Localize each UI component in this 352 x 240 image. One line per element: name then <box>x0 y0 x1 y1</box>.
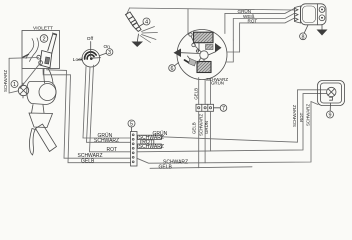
headlamp leg <box>29 129 35 156</box>
wire coil feed horizontal <box>9 57 38 60</box>
magneto M6 outer <box>177 30 227 80</box>
wire magneto down schwarz <box>204 79 206 104</box>
label ROT boxed <box>141 140 154 146</box>
kill switch S8 body <box>295 4 327 25</box>
svg-text:GRÜN: GRÜN <box>204 121 209 134</box>
svg-text:GELB: GELB <box>81 158 95 164</box>
label 3 <box>99 53 106 56</box>
wire rot top <box>240 18 295 52</box>
svg-text:4: 4 <box>145 20 148 26</box>
wire magneto down gruen <box>210 78 212 104</box>
arrow stub <box>23 54 29 57</box>
wire magneto down gelb <box>198 78 200 105</box>
label 9 <box>327 111 334 118</box>
svg-text:2: 2 <box>42 37 45 43</box>
svg-text:Lock: Lock <box>73 57 84 63</box>
svg-text:SCHWARZ: SCHWARZ <box>306 104 311 126</box>
wire bus schwarz right <box>137 102 318 164</box>
pilot bulb E1 <box>18 83 28 98</box>
wire block down gelb <box>198 111 200 167</box>
svg-text:GELB: GELB <box>191 122 196 134</box>
svg-text:SCHWARZ: SCHWARZ <box>198 114 203 136</box>
label 8 <box>300 33 307 40</box>
svg-text:Off: Off <box>87 36 94 42</box>
label 4 <box>139 18 150 27</box>
coil cables squiggle <box>26 39 34 59</box>
wire bus rot right <box>137 94 327 152</box>
magneto left arrow <box>174 49 182 58</box>
wire block down gruen <box>210 111 212 151</box>
wire SCHWARZ vertical left <box>9 58 18 93</box>
label 5 <box>128 120 135 127</box>
svg-text:8: 8 <box>302 34 305 40</box>
label 2 <box>40 35 48 43</box>
ignition coil box B2 <box>22 31 60 69</box>
svg-text:5: 5 <box>130 122 133 128</box>
headlamp housing <box>27 82 56 105</box>
svg-text:VIOLETT: VIOLETT <box>33 26 53 32</box>
terminal strip X5 <box>131 132 138 167</box>
wire bus green right <box>137 90 327 142</box>
svg-text:SCHWARZ: SCHWARZ <box>292 105 297 127</box>
label 7 <box>220 105 227 112</box>
wire bus gelb <box>150 167 252 169</box>
wire kill tap to magneto <box>187 9 189 35</box>
label 6 <box>169 65 176 72</box>
wire magneto right stub2 <box>227 40 234 62</box>
wire block down schwarz <box>204 111 206 163</box>
coil terminal b <box>39 61 43 65</box>
headlamp bracket <box>29 113 53 128</box>
magneto right arrow <box>215 43 222 53</box>
coil terminal a <box>37 55 41 59</box>
wire coil to lamp b <box>49 69 54 83</box>
svg-text:3: 3 <box>108 50 111 56</box>
svg-text:ROT: ROT <box>299 112 304 122</box>
svg-text:SCHWARZ: SCHWARZ <box>94 138 119 144</box>
label SCHWARZ boxed <box>138 135 164 141</box>
svg-text:ROT: ROT <box>107 147 118 153</box>
svg-text:6: 6 <box>171 66 174 72</box>
junction block X7 <box>196 104 214 111</box>
wire box down 1 <box>47 70 131 158</box>
wire coil to lamp a <box>43 69 46 84</box>
ignition switch S3 <box>78 42 100 68</box>
svg-text:GELB: GELB <box>193 88 198 100</box>
wire weib top <box>233 13 294 40</box>
ground at spark plug <box>132 34 144 47</box>
wire ROT left <box>90 65 131 152</box>
svg-text:ROT: ROT <box>248 19 258 24</box>
spark plug U4 body <box>126 12 142 31</box>
spark plug spark rays <box>140 27 158 43</box>
wire bulb to coil diagonal <box>20 63 40 88</box>
label SCHWARZ boxed 2 <box>138 144 164 150</box>
svg-text:9: 9 <box>329 113 332 119</box>
svg-text:GELB: GELB <box>159 164 173 170</box>
wire switch down 2 <box>87 67 131 143</box>
wire HT/kill top run <box>130 8 295 10</box>
wire box corner to bulb <box>21 69 23 86</box>
wire gruen top <box>225 8 295 33</box>
svg-text:1: 1 <box>13 82 16 88</box>
tail lamp E9 <box>318 81 345 106</box>
svg-text:7: 7 <box>222 106 225 112</box>
wire plug drop <box>127 8 130 15</box>
svg-text:SCHWARZ: SCHWARZ <box>3 70 8 92</box>
magneto ignition coil <box>197 62 211 73</box>
magneto cam <box>200 51 208 59</box>
magneto lighting coil <box>194 32 214 43</box>
wire magneto right stub <box>228 51 240 53</box>
ignition coil body <box>40 33 57 68</box>
magneto points detail <box>181 33 215 66</box>
svg-text:SCHWARZ: SCHWARZ <box>139 144 164 150</box>
svg-text:GRÜN: GRÜN <box>211 80 224 85</box>
wire switch down 1 <box>83 67 131 139</box>
headlamp stalk <box>36 124 57 152</box>
wire box down 2 <box>43 68 131 162</box>
label 1 <box>11 81 18 88</box>
ground at kill switch <box>317 25 328 36</box>
